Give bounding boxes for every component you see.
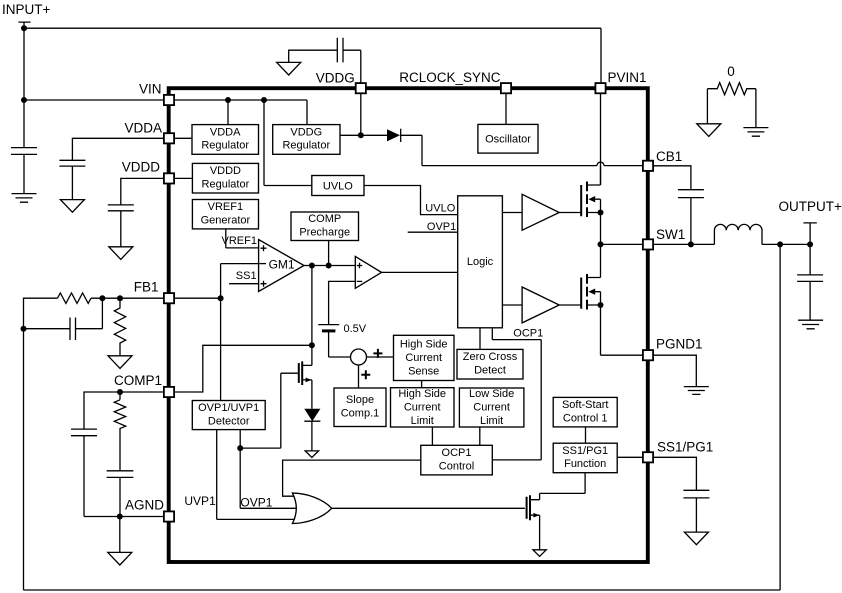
svg-text:Current: Current bbox=[405, 352, 442, 364]
wire VDDD bypass bbox=[121, 178, 164, 205]
label VDDG bbox=[316, 71, 355, 86]
svg-text:High Side: High Side bbox=[398, 388, 446, 400]
svg-text:SS1/PG1: SS1/PG1 bbox=[657, 440, 713, 455]
label VDDD bbox=[122, 160, 161, 175]
svg-text:OCP1: OCP1 bbox=[513, 328, 543, 340]
capacitor C output bbox=[797, 244, 823, 320]
junction AGND bbox=[117, 514, 123, 520]
label PGND1 bbox=[656, 337, 703, 352]
label AGND bbox=[125, 498, 164, 513]
wire logic to upper driver bbox=[502, 212, 522, 214]
svg-text:OCP1: OCP1 bbox=[442, 447, 472, 459]
svg-text:RCLOCK_SYNC: RCLOCK_SYNC bbox=[399, 70, 501, 85]
svg-text:Control 1: Control 1 bbox=[563, 412, 608, 424]
label adder plus bottom bbox=[361, 370, 370, 379]
pin VDDD bbox=[164, 173, 174, 183]
capacitor C COMP1 left bbox=[71, 429, 97, 436]
wire VREF1 to GM1 bbox=[226, 228, 259, 248]
ground triangle VDDG cap bbox=[277, 62, 301, 75]
wire zero cross to logic bbox=[479, 328, 481, 350]
svg-text:VDDD: VDDD bbox=[122, 160, 161, 175]
wire soft start to SS function bbox=[585, 427, 587, 443]
wire VDDA pin to regulator bbox=[174, 137, 192, 139]
wire VDDD pin to regulator bbox=[174, 177, 192, 179]
svg-text:Slope: Slope bbox=[346, 394, 374, 406]
arrow terminator comp discharge bbox=[305, 451, 318, 458]
pin PGND1 bbox=[643, 350, 653, 360]
battery 0.5V bbox=[318, 281, 355, 357]
ground triangle VDDD cap bbox=[109, 247, 133, 260]
ground triangle R0 left bbox=[697, 124, 721, 137]
resistor R FB top bbox=[58, 293, 92, 303]
wire SS function to pin bbox=[617, 456, 643, 458]
pin PVIN1 bbox=[595, 83, 605, 93]
pin VDDA bbox=[164, 133, 174, 143]
junction COMP1 bbox=[117, 389, 123, 395]
block UVLO bbox=[312, 176, 364, 196]
wire RCLOCK_SYNC to oscillator bbox=[505, 93, 507, 125]
junction GM1 out 1 bbox=[309, 263, 315, 269]
block OCP1 Control bbox=[421, 445, 493, 475]
block Slope Comp.1 bbox=[334, 388, 386, 427]
wire input rail to PVIN1 bbox=[24, 28, 601, 83]
adder slope summing junction bbox=[351, 349, 394, 388]
block SS1/PG1 Function bbox=[553, 443, 617, 473]
label UVLO net bbox=[425, 203, 455, 215]
capacitor C soft start bbox=[683, 490, 709, 532]
logic gate OR bbox=[292, 493, 331, 523]
wire detector OVP1 output bbox=[240, 430, 297, 509]
ground earth R0 right bbox=[743, 128, 768, 137]
wire sense to limit bbox=[421, 381, 423, 388]
label COMP1 bbox=[114, 373, 162, 388]
label OVP1 net top bbox=[427, 221, 456, 233]
svg-text:GM1: GM1 bbox=[269, 258, 295, 272]
svg-text:UVP1: UVP1 bbox=[184, 494, 216, 508]
transistor Q comp discharge bbox=[299, 361, 312, 385]
svg-text:Oscillator: Oscillator bbox=[485, 134, 531, 146]
wire driver to upper gate bbox=[559, 212, 581, 214]
svg-text:SW1: SW1 bbox=[656, 227, 685, 242]
label OCP1 net bbox=[513, 328, 543, 340]
buffer driver low side bbox=[522, 287, 559, 323]
pin CB1 bbox=[643, 161, 653, 171]
svg-text:Regulator: Regulator bbox=[282, 140, 330, 152]
pin RCLOCK_SYNC bbox=[501, 83, 511, 93]
svg-text:Function: Function bbox=[564, 458, 606, 470]
transistor Q fault pulldown bbox=[527, 473, 586, 550]
pin VDDG bbox=[356, 83, 366, 93]
wire OCP to OR gate bbox=[283, 460, 421, 496]
label RCLOCK_SYNC bbox=[399, 70, 501, 85]
svg-text:0.5V: 0.5V bbox=[344, 323, 367, 335]
block COMP Precharge bbox=[291, 212, 359, 241]
svg-text:Detector: Detector bbox=[208, 415, 250, 427]
capacitor C input bbox=[11, 100, 37, 194]
label OVP1 net bottom bbox=[240, 495, 272, 509]
label UVP1 net bbox=[184, 494, 216, 508]
label 0 resistor bbox=[727, 64, 735, 79]
junction upper FET source bbox=[598, 210, 604, 216]
svg-text:Logic: Logic bbox=[467, 256, 494, 268]
ground triangle AGND bbox=[108, 552, 132, 565]
ground earth input cap bbox=[12, 194, 37, 203]
svg-text:Regulator: Regulator bbox=[201, 140, 249, 152]
junction COMP node bbox=[309, 342, 315, 348]
label comparator minus bbox=[357, 280, 362, 282]
diode D VDDG bbox=[387, 129, 401, 142]
wire CB1 outer bbox=[653, 166, 691, 190]
label adder plus right bbox=[373, 349, 382, 358]
resistor R COMP1 bbox=[114, 400, 125, 471]
wire detector UVP1 output bbox=[217, 430, 295, 520]
wire SW node to SW1 pin bbox=[601, 243, 644, 245]
pin SW1 bbox=[643, 239, 653, 249]
svg-text:INPUT+: INPUT+ bbox=[2, 2, 51, 17]
wire PGND internal bbox=[601, 354, 644, 356]
pin AGND bbox=[164, 511, 174, 521]
svg-text:PVIN1: PVIN1 bbox=[608, 70, 647, 85]
svg-text:VDDG: VDDG bbox=[290, 126, 322, 138]
block VDDD Regulator bbox=[192, 163, 258, 193]
junction OVP1 branch bbox=[237, 445, 243, 451]
label CB1 bbox=[656, 149, 682, 164]
node OUTPUT+ terminal bbox=[803, 223, 816, 245]
junction SW node bbox=[598, 241, 604, 247]
svg-text:VREF1: VREF1 bbox=[222, 235, 257, 247]
wire comparator output to logic bbox=[382, 271, 458, 273]
ground triangle SS cap bbox=[684, 532, 708, 545]
block VDDA Regulator bbox=[192, 125, 259, 155]
capacitor C VDDD bbox=[108, 205, 134, 247]
capacitor C boot CB1 bbox=[678, 190, 704, 245]
svg-text:UVLO: UVLO bbox=[323, 180, 353, 192]
op-amp comparator PWM bbox=[355, 256, 381, 288]
wire COMP1 internal bbox=[174, 345, 312, 392]
op-amp GM1 bbox=[259, 240, 304, 292]
label SW1 bbox=[656, 227, 685, 242]
label GM1 plus bottom bbox=[261, 281, 267, 287]
svg-text:Zero Cross: Zero Cross bbox=[463, 351, 518, 363]
wire logic OCP1 to control bbox=[492, 328, 541, 460]
wire OVP discharge gate bbox=[240, 373, 298, 448]
svg-text:OVP1: OVP1 bbox=[427, 221, 456, 233]
junction VIN rail UVLO bbox=[261, 97, 267, 103]
svg-text:COMP1: COMP1 bbox=[114, 373, 162, 388]
svg-text:VDDA: VDDA bbox=[210, 126, 241, 138]
junction output return bbox=[777, 241, 783, 247]
svg-text:FB1: FB1 bbox=[134, 280, 159, 295]
wire VDDG pin internal bbox=[360, 93, 362, 136]
ground earth output cap bbox=[798, 320, 823, 329]
junction input rail top bbox=[21, 25, 27, 31]
wire CB1 internal with hop bbox=[422, 162, 643, 166]
ground triangle VDDA cap bbox=[60, 200, 84, 213]
transistor Q high side FET bbox=[581, 166, 600, 245]
svg-text:Low Side: Low Side bbox=[469, 388, 514, 400]
label SS1 net bbox=[236, 270, 257, 282]
pin SS1/PG1 bbox=[643, 452, 653, 462]
capacitor C COMP1 series bbox=[107, 471, 134, 478]
label VDDA bbox=[124, 121, 162, 136]
wire VDDG regulator output bbox=[339, 135, 422, 165]
svg-text:Soft-Start: Soft-Start bbox=[562, 399, 608, 411]
svg-text:Detect: Detect bbox=[474, 364, 506, 376]
svg-text:CB1: CB1 bbox=[656, 149, 682, 164]
svg-text:Control: Control bbox=[439, 460, 474, 472]
arrow terminator fault pulldown bbox=[533, 550, 546, 557]
svg-text:UVLO: UVLO bbox=[425, 203, 455, 215]
block High Side Current Sense bbox=[394, 335, 455, 380]
transistor Q low side FET bbox=[581, 244, 600, 355]
block OVP1/UVP1 Detector bbox=[192, 401, 265, 430]
svg-text:Limit: Limit bbox=[411, 415, 434, 427]
block Oscillator bbox=[478, 124, 538, 153]
svg-text:High Side: High Side bbox=[400, 339, 448, 351]
junction FB resistor bbox=[99, 295, 105, 301]
wire VDDA bypass bbox=[72, 138, 164, 160]
block High Side Current Limit bbox=[391, 388, 455, 427]
svg-text:SS1/PG1: SS1/PG1 bbox=[562, 445, 608, 457]
wire HS limit to OCP control bbox=[431, 427, 433, 445]
svg-text:Precharge: Precharge bbox=[299, 227, 350, 239]
node INPUT+ terminal bbox=[19, 22, 31, 100]
wire logic to lower driver bbox=[502, 304, 522, 306]
wire FB1 internal to GM1 and detector bbox=[174, 264, 259, 401]
svg-text:OUTPUT+: OUTPUT+ bbox=[779, 199, 842, 214]
block VDDG Regulator bbox=[273, 125, 340, 155]
junction GM1 out 2 bbox=[326, 263, 332, 269]
pin COMP1 bbox=[164, 387, 174, 397]
wire COMP1 outer network bbox=[84, 392, 164, 552]
block Zero Cross Detect bbox=[457, 349, 523, 379]
svg-text:OVP1/UVP1: OVP1/UVP1 bbox=[198, 402, 259, 414]
label FB1 bbox=[134, 280, 159, 295]
label GM1 plus top bbox=[261, 245, 267, 251]
inductor L output bbox=[714, 224, 762, 244]
wire output return bottom bbox=[24, 244, 781, 590]
capacitor C VDDG (top) bbox=[289, 38, 361, 84]
svg-text:SS1: SS1 bbox=[236, 270, 257, 282]
label INPUT+ bbox=[2, 2, 51, 17]
junction VIN rail VDDA reg bbox=[225, 97, 231, 103]
wire GM1 output node bbox=[304, 241, 355, 366]
capacitor C VDDA bbox=[59, 160, 85, 199]
wire LS limit to OCP control bbox=[479, 427, 481, 445]
label OUTPUT+ bbox=[779, 199, 842, 214]
block Soft-Start Control 1 bbox=[553, 397, 617, 427]
wire SW1 outer bbox=[653, 243, 810, 245]
svg-text:VREF1: VREF1 bbox=[208, 201, 243, 213]
block Logic bbox=[458, 196, 503, 328]
label 0.5V bbox=[344, 323, 367, 335]
junction FB1 internal bbox=[218, 295, 224, 301]
junction CB cap SW bbox=[688, 241, 694, 247]
svg-text:VIN: VIN bbox=[139, 82, 162, 97]
svg-text:COMP: COMP bbox=[308, 213, 341, 225]
pin FB1 bbox=[164, 293, 174, 303]
svg-text:VDDD: VDDD bbox=[210, 165, 241, 177]
label GM1 text bbox=[269, 258, 295, 272]
label GM1 minus bbox=[259, 263, 266, 265]
svg-text:Current: Current bbox=[404, 402, 441, 414]
block Low Side Current Limit bbox=[459, 388, 524, 427]
wire UVLO to logic bbox=[364, 186, 458, 215]
junction VDDG out bbox=[358, 132, 364, 138]
label SS1/PG1 pin bbox=[657, 440, 713, 455]
svg-text:PGND1: PGND1 bbox=[656, 337, 703, 352]
wire OR output bbox=[332, 507, 525, 509]
wire OVP1 stub to logic bbox=[408, 231, 458, 233]
diode D comp discharge bbox=[304, 380, 320, 451]
svg-text:OVP1: OVP1 bbox=[240, 495, 272, 509]
resistor R FB bottom bbox=[114, 298, 125, 356]
svg-text:Limit: Limit bbox=[480, 415, 503, 427]
svg-text:Generator: Generator bbox=[201, 214, 251, 226]
svg-text:VDDG: VDDG bbox=[316, 71, 355, 86]
label PVIN1 bbox=[608, 70, 647, 85]
wire SS1 stub to GM1 bbox=[229, 283, 259, 285]
svg-text:0: 0 bbox=[727, 64, 735, 79]
svg-text:AGND: AGND bbox=[125, 498, 164, 513]
wire SS1/PG1 outer bbox=[653, 457, 696, 490]
wire PGND1 outer bbox=[653, 355, 696, 386]
block VREF1 Generator bbox=[192, 200, 258, 229]
wire VIN from input rail bbox=[24, 99, 164, 101]
wire FB1 outer network bbox=[24, 298, 165, 590]
label VIN bbox=[139, 82, 162, 97]
ground earth PGND1 bbox=[684, 387, 709, 395]
IC boundary bbox=[169, 88, 648, 562]
svg-text:Current: Current bbox=[473, 402, 510, 414]
svg-text:Regulator: Regulator bbox=[202, 178, 250, 190]
junction lower FET source bbox=[598, 302, 604, 308]
pin VIN bbox=[164, 95, 174, 105]
junction output cap bbox=[807, 241, 813, 247]
wire PVIN1 internal bbox=[600, 93, 602, 185]
wire VIN internal rail bbox=[174, 100, 312, 186]
buffer driver high side bbox=[522, 194, 559, 230]
label VREF1 net bbox=[222, 235, 257, 247]
ground triangle FB divider bbox=[108, 356, 132, 369]
resistor R 0 (top right) bbox=[707, 83, 756, 128]
junction input VIN bbox=[21, 97, 27, 103]
label comparator plus bbox=[357, 263, 362, 268]
svg-text:Sense: Sense bbox=[408, 365, 439, 377]
svg-text:VDDA: VDDA bbox=[124, 121, 162, 136]
junction FB divider bbox=[117, 295, 123, 301]
svg-text:Comp.1: Comp.1 bbox=[341, 408, 380, 420]
wire driver to lower gate bbox=[559, 304, 581, 306]
junction FB cap left bbox=[21, 326, 27, 332]
